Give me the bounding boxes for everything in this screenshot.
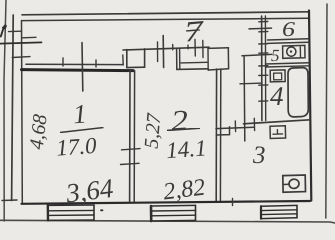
svg-text:4: 4 xyxy=(270,81,284,111)
room 6 bottom wall line 2 xyxy=(268,42,309,43)
tick above corridor line (right) xyxy=(202,41,204,58)
ladder rung 1 xyxy=(259,21,268,23)
svg-text:2: 2 xyxy=(170,105,189,138)
svg-text:3: 3 xyxy=(252,142,266,169)
kitchen top wall lower line xyxy=(216,127,254,128)
bottom-left dimension tick xyxy=(2,199,17,202)
stove tick xyxy=(284,183,290,185)
wall room2/kitchen right line xyxy=(219,69,221,202)
closet box B right compartment top xyxy=(208,47,229,50)
svg-text:4,68: 4,68 xyxy=(26,113,52,150)
room 1 fraction line xyxy=(60,128,104,133)
tick crossing kitchen top wall right xyxy=(253,118,255,130)
closet box B middle divider xyxy=(207,48,209,70)
dimension tick crossing vent shaft xyxy=(249,27,272,30)
tick on room1 top wall (right) xyxy=(95,60,97,67)
room 1 top wall upper line xyxy=(26,63,123,65)
long vertical mark V1 crossing room1 wall xyxy=(81,43,84,92)
left wall rung 2 xyxy=(12,56,30,59)
stove burner circle xyxy=(288,179,299,190)
svg-text:5: 5 xyxy=(271,46,280,65)
svg-text:5,27: 5,27 xyxy=(141,112,166,150)
stove box xyxy=(283,175,306,192)
page border bottom xyxy=(0,220,335,223)
door notch rect at kitchen entrance xyxy=(216,127,229,135)
window room 2 (hatched) xyxy=(151,205,196,221)
closet box B right compartment right edge xyxy=(227,48,229,69)
toilet room bottom wall line 1 xyxy=(266,63,310,64)
svg-text:17.0: 17.0 xyxy=(55,133,97,161)
ladder rung 4 xyxy=(259,52,268,54)
closet box B left edge outer xyxy=(176,49,178,69)
closet box B left edge inner xyxy=(179,49,181,69)
left wall rung 1 xyxy=(9,30,22,32)
bottom wall of apartment xyxy=(22,201,311,204)
svg-text:1: 1 xyxy=(72,98,88,129)
toilet: tank rect xyxy=(283,45,305,58)
left wall inner line xyxy=(21,21,24,204)
tick on divider wall upper xyxy=(122,149,141,150)
washbasin inner rect xyxy=(274,73,282,80)
closet box B shelf line xyxy=(181,61,207,64)
tick above corridor line (left of 7 stem) xyxy=(194,40,196,57)
svg-text:14.1: 14.1 xyxy=(165,135,207,163)
ladder rung 7 xyxy=(259,84,268,86)
toilet room bottom wall line 2 xyxy=(266,66,310,67)
washbasin outer rect xyxy=(270,70,285,82)
pen mark top-left xyxy=(1,25,6,36)
closet box B bottom xyxy=(177,68,208,71)
bathroom door tick xyxy=(240,82,262,85)
tick inside hall near left wall xyxy=(23,36,37,39)
toilet: bowl center dot xyxy=(290,50,292,52)
small tick near kitchen wall bottom xyxy=(232,199,234,206)
ladder rung 8 xyxy=(259,100,268,102)
tick on corridor line b xyxy=(187,45,189,49)
page border left xyxy=(4,0,6,221)
bathtub xyxy=(288,68,308,117)
dot between windows xyxy=(101,209,103,211)
toilet: bowl circle xyxy=(287,47,296,56)
jog up at end of room 1 upper wall xyxy=(122,55,124,65)
hall inner wall vertical xyxy=(243,57,246,142)
kitchen sink inner mark xyxy=(273,130,283,135)
hall door lintel line xyxy=(242,54,272,55)
vent shaft wall (ladder) left line xyxy=(261,16,263,121)
corridor wall line (hall 7, sloping) xyxy=(123,47,209,50)
svg-text:3,64: 3,64 xyxy=(63,173,115,209)
top wall inner line xyxy=(23,18,310,20)
tick crossing corridor line xyxy=(157,42,159,62)
closet box B right compartment bottom xyxy=(208,69,228,70)
window room 1 (hatched) xyxy=(48,205,94,220)
top wall outer line xyxy=(22,12,309,15)
left wall outer line xyxy=(12,15,14,201)
ladder rung 3 xyxy=(259,43,268,45)
svg-text:2,82: 2,82 xyxy=(162,175,207,206)
kitchen sink box xyxy=(270,126,286,139)
tick on divider wall lower xyxy=(121,163,140,164)
svg-text:6: 6 xyxy=(282,17,296,41)
tick crossing kitchen top wall xyxy=(234,121,236,132)
wall between rooms 1 and 2, left line xyxy=(129,71,131,203)
wall room2/kitchen left line xyxy=(215,69,217,202)
long vertical V2 (door leaf) xyxy=(162,36,164,68)
ladder rung 2 xyxy=(259,31,268,33)
tick on corridor line a xyxy=(172,45,174,50)
toilet: flush tick xyxy=(299,47,301,57)
wall between rooms 1 and 2, right line xyxy=(133,71,135,203)
page border right xyxy=(326,4,327,218)
ladder rung 6 xyxy=(259,74,268,76)
vent shaft wall (ladder) right line xyxy=(264,16,266,121)
tick on room1 top wall xyxy=(62,58,64,66)
bathroom bottom wall xyxy=(244,120,311,124)
room 2 fraction line xyxy=(167,128,200,130)
closet box A left edge xyxy=(126,50,128,68)
right wall of building xyxy=(309,11,311,201)
closet box A bottom xyxy=(127,66,145,68)
room 1 top wall lower line (thick) xyxy=(22,70,134,71)
hall 7 crossbar xyxy=(186,30,200,31)
closet box A right edge xyxy=(144,49,146,67)
ladder rung 5 xyxy=(259,65,268,67)
stray wall line crossing left wall xyxy=(0,42,42,43)
room 6 bottom wall line 1 xyxy=(268,39,309,40)
window kitchen (hatched) xyxy=(261,205,297,218)
